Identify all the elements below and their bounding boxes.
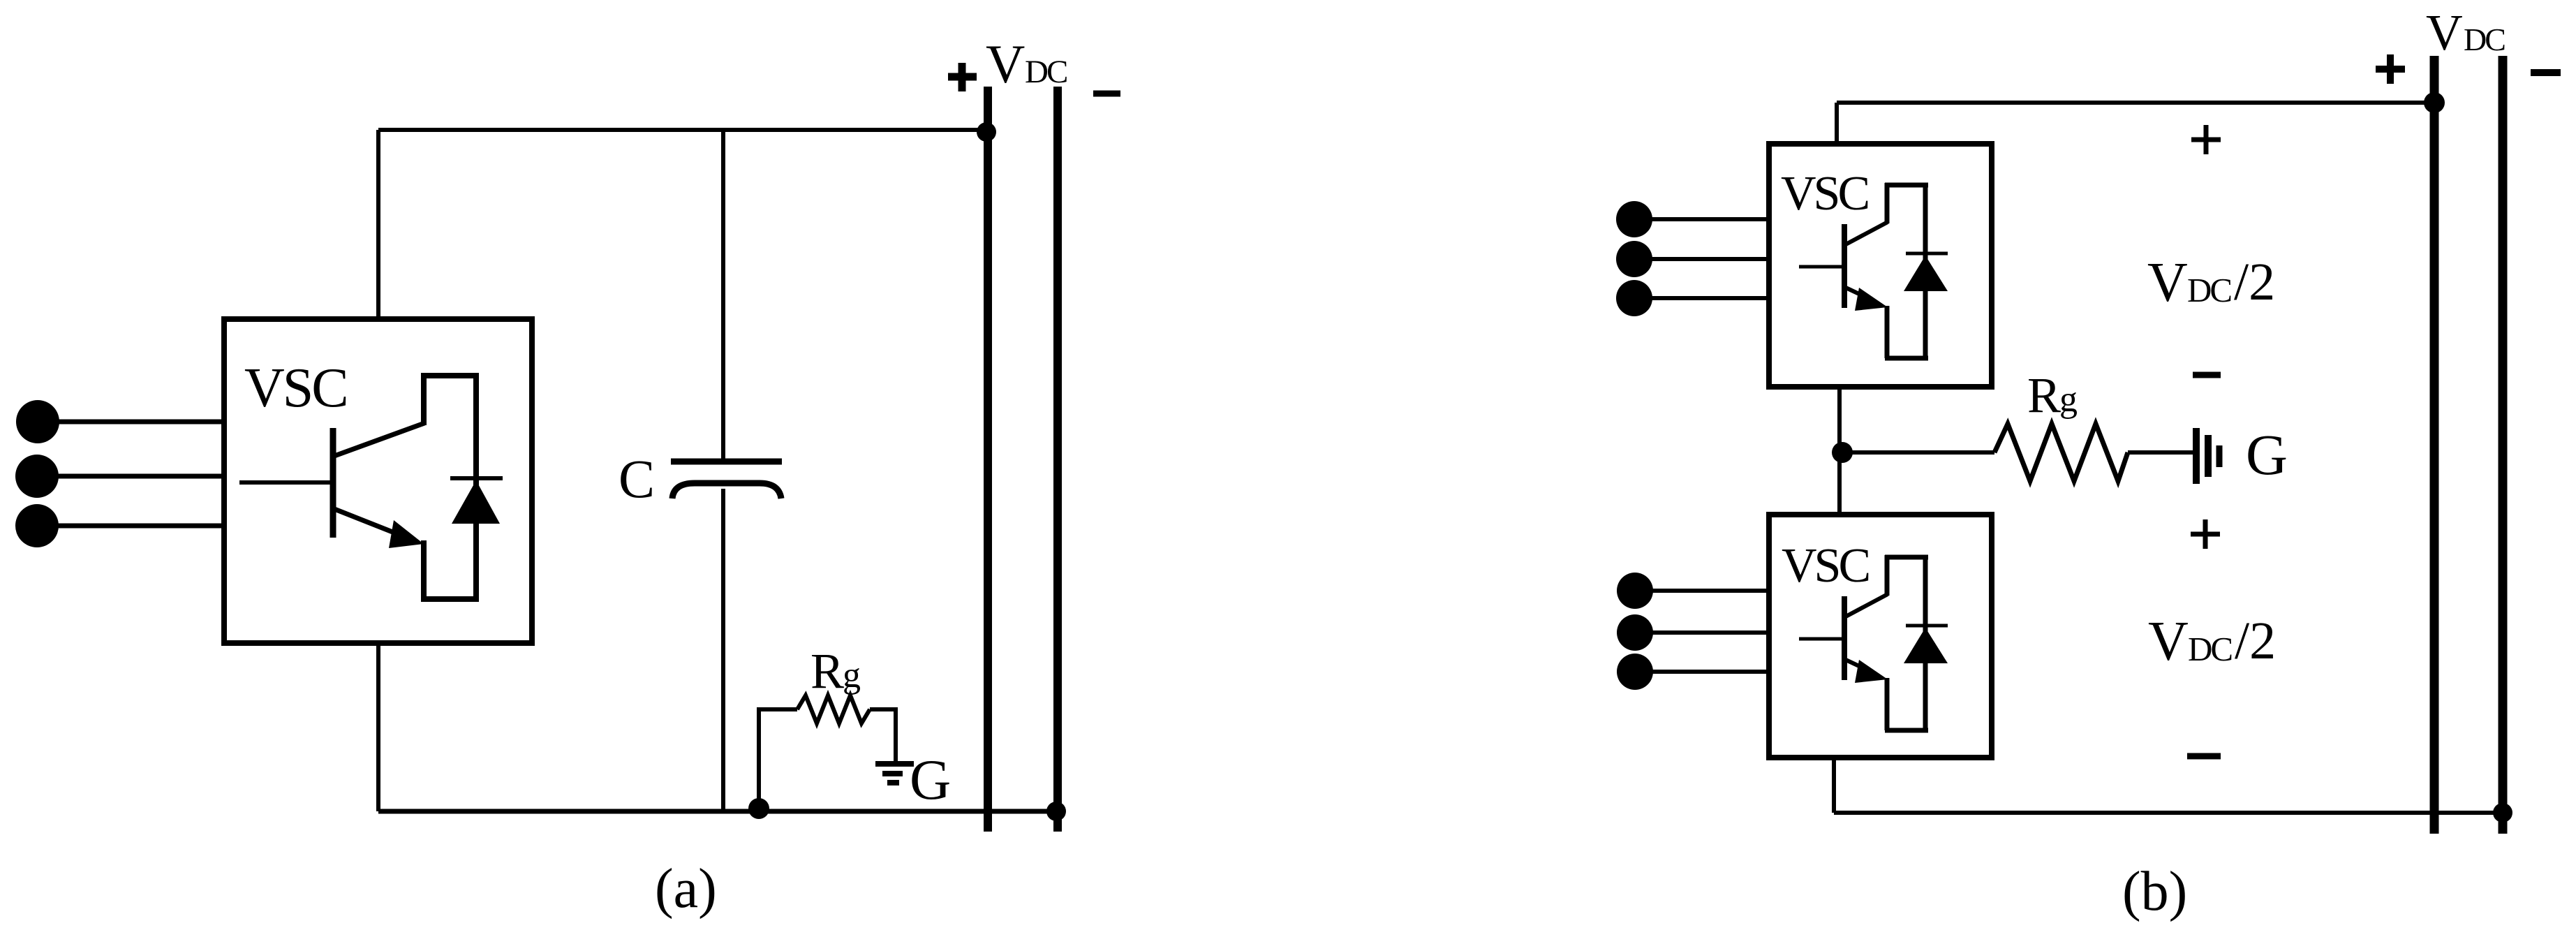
node phase terminal A1 — [16, 400, 59, 443]
transistor Q1 collector diagonal — [334, 423, 424, 456]
label minus lower half (b) — [2187, 753, 2221, 760]
diode D3 cathode bar — [1906, 624, 1948, 628]
svg-text:V: V — [2426, 4, 2463, 61]
node phase terminal A3 (bottom VSC) — [1617, 573, 1653, 609]
ground symbol (a) line 3 — [887, 780, 899, 785]
svg-text:V: V — [986, 34, 1025, 94]
svg-text:/2: /2 — [2235, 612, 2276, 670]
diode D1 vertical — [473, 376, 479, 599]
transistor Q3 bar — [1842, 596, 1847, 680]
wire VSC (a) bottom stub — [376, 643, 380, 811]
label minus outer (b) — [2531, 69, 2561, 76]
wire bottom bracket Q1-D1 — [421, 596, 479, 602]
svg-text:G: G — [910, 748, 951, 811]
ground symbol (b) bar 3 — [2216, 445, 2223, 467]
wire Rg left vertical — [757, 709, 761, 809]
node junction top positive bus (b) — [2424, 92, 2445, 113]
ground symbol (b) bar 1 — [2193, 428, 2200, 484]
svg-text:R: R — [810, 643, 844, 699]
node phase terminal B3 (bottom VSC) — [1617, 614, 1653, 651]
node junction Rg bottom — [748, 798, 769, 819]
wire bottom DC negative — [378, 809, 1056, 814]
transistor Q2 emitter vertical — [1885, 306, 1890, 358]
label minus upper half (b) — [2193, 372, 2221, 378]
transistor Q1 emitter diagonal — [334, 509, 398, 534]
node phase terminal B2 (top VSC) — [1616, 241, 1652, 277]
transistor Q3 emitter arrowhead — [1855, 660, 1888, 683]
wire top bracket Q1-D1 — [421, 373, 479, 378]
diode D1 triangle — [452, 480, 500, 524]
transistor Q1 emitter arrowhead — [389, 520, 424, 548]
label plus upper half (b) — [2191, 125, 2221, 154]
node phase terminal B1 — [15, 455, 59, 498]
diode D1 cathode bar — [450, 476, 503, 480]
bus bar positive (b) — [2430, 56, 2439, 834]
capacitor C top plate — [671, 459, 782, 465]
svg-text:VSC: VSC — [1781, 167, 1867, 221]
wire phase C2 — [1634, 296, 1769, 300]
bus bar negative (b) — [2499, 56, 2508, 834]
wire Rg top right — [870, 707, 898, 711]
node phase terminal C3 (bottom VSC) — [1617, 654, 1653, 690]
bus bar negative (a) — [1053, 87, 1062, 832]
wire phase B1 — [37, 474, 224, 479]
transistor Q1 bar — [330, 428, 336, 538]
transistor Q3 collector vertical — [1885, 555, 1890, 596]
ground symbol (a) line 2 — [882, 771, 903, 776]
wire bottom bracket Q2-D2 — [1885, 356, 1928, 361]
svg-text:DC: DC — [1025, 54, 1067, 90]
transistor Q2 emitter diagonal — [1846, 288, 1870, 299]
node junction midpoint M — [1832, 442, 1853, 463]
ground symbol (a) line 1 — [875, 761, 914, 767]
wire Rg right (b) — [2128, 450, 2193, 455]
svg-text:(b): (b) — [2122, 861, 2187, 922]
diode D2 triangle — [1904, 256, 1948, 291]
wire VSC (a) top stub — [376, 130, 380, 319]
svg-text:G: G — [2246, 422, 2288, 487]
converter block VSC (b bottom) box — [1769, 515, 1992, 758]
svg-text:C: C — [619, 448, 655, 509]
svg-text:/2: /2 — [2234, 253, 2275, 311]
diode D2 vertical — [1923, 185, 1928, 358]
wire Rg ground vertical — [894, 707, 898, 762]
transistor Q2 bar — [1842, 224, 1847, 308]
wire midpoint vertical between converters — [1837, 387, 1842, 515]
svg-text:DC: DC — [2464, 22, 2505, 57]
bus bar positive (a) — [984, 87, 992, 832]
label plus outer (b) — [2376, 54, 2405, 84]
label minus (a) — [1093, 91, 1120, 97]
wire Rg top left — [757, 707, 797, 711]
transistor Q3 collector diagonal — [1846, 594, 1888, 617]
transistor Q3 emitter diagonal — [1846, 660, 1870, 671]
transistor Q1 collector vertical — [421, 373, 427, 425]
wire capacitor lower — [721, 489, 725, 811]
transistor Q3 emitter vertical — [1885, 678, 1890, 730]
transistor Q2 collector vertical — [1885, 183, 1890, 223]
svg-text:V: V — [2147, 252, 2188, 313]
wire VSC (b top) top stub — [1835, 103, 1839, 144]
wire phase A2 — [1634, 217, 1769, 221]
svg-text:V: V — [2148, 611, 2189, 672]
label plus (a) — [948, 63, 977, 91]
svg-text:DC: DC — [2187, 271, 2230, 309]
svg-text:VSC: VSC — [244, 357, 347, 419]
svg-text:(a): (a) — [655, 858, 717, 920]
label plus lower half (b) — [2191, 519, 2220, 549]
wire VSC (b bottom) bottom stub — [1832, 758, 1836, 813]
svg-text:R: R — [2027, 367, 2061, 423]
wire phase B2 — [1634, 257, 1769, 261]
wire bottom DC negative (b) — [1834, 811, 2503, 815]
resistor Rg (a) zigzag — [797, 695, 870, 723]
transistor Q2 emitter arrowhead — [1855, 288, 1888, 311]
wire top DC positive — [378, 128, 988, 132]
diode D3 triangle — [1904, 628, 1948, 663]
svg-text:VSC: VSC — [1782, 539, 1868, 593]
transistor Q1 base lead — [239, 480, 333, 485]
wire phase C3 — [1635, 670, 1769, 674]
converter block VSC (b top) box — [1769, 144, 1992, 387]
svg-text:g: g — [843, 656, 861, 695]
converter block VSC (a) box — [224, 319, 532, 643]
wire top bracket Q2-D2 — [1885, 183, 1928, 188]
transistor Q2 collector diagonal — [1846, 222, 1888, 244]
node phase terminal A2 (top VSC) — [1616, 201, 1652, 237]
wire phase A1 — [38, 420, 224, 425]
transistor Q1 emitter vertical — [421, 540, 427, 599]
ground symbol (b) bar 2 — [2205, 435, 2212, 477]
wire Rg left (b) — [1842, 450, 1994, 455]
node junction bottom negative bus (b) — [2493, 803, 2512, 822]
wire bottom bracket Q3-D3 — [1885, 728, 1928, 733]
svg-text:DC: DC — [2188, 630, 2231, 668]
node junction bottom negative bus — [1046, 802, 1066, 821]
node junction top positive bus — [977, 122, 996, 142]
resistor Rg (b) zigzag — [1994, 424, 2128, 481]
wire phase A3 — [1635, 589, 1769, 593]
diode D2 cathode bar — [1906, 252, 1948, 256]
wire capacitor upper — [721, 130, 725, 462]
node phase terminal C1 — [15, 504, 59, 547]
wire top DC positive (b) — [1837, 101, 2434, 105]
diode D3 vertical — [1923, 557, 1928, 730]
wire phase C1 — [37, 524, 224, 529]
wire top bracket Q3-D3 — [1885, 555, 1928, 560]
node phase terminal C2 (top VSC) — [1616, 280, 1652, 316]
capacitor C bottom curved plate — [672, 483, 781, 499]
svg-text:g: g — [2059, 380, 2078, 420]
wire phase B3 — [1635, 630, 1769, 635]
transistor Q2 base lead — [1799, 265, 1844, 269]
transistor Q3 base lead — [1799, 637, 1844, 641]
